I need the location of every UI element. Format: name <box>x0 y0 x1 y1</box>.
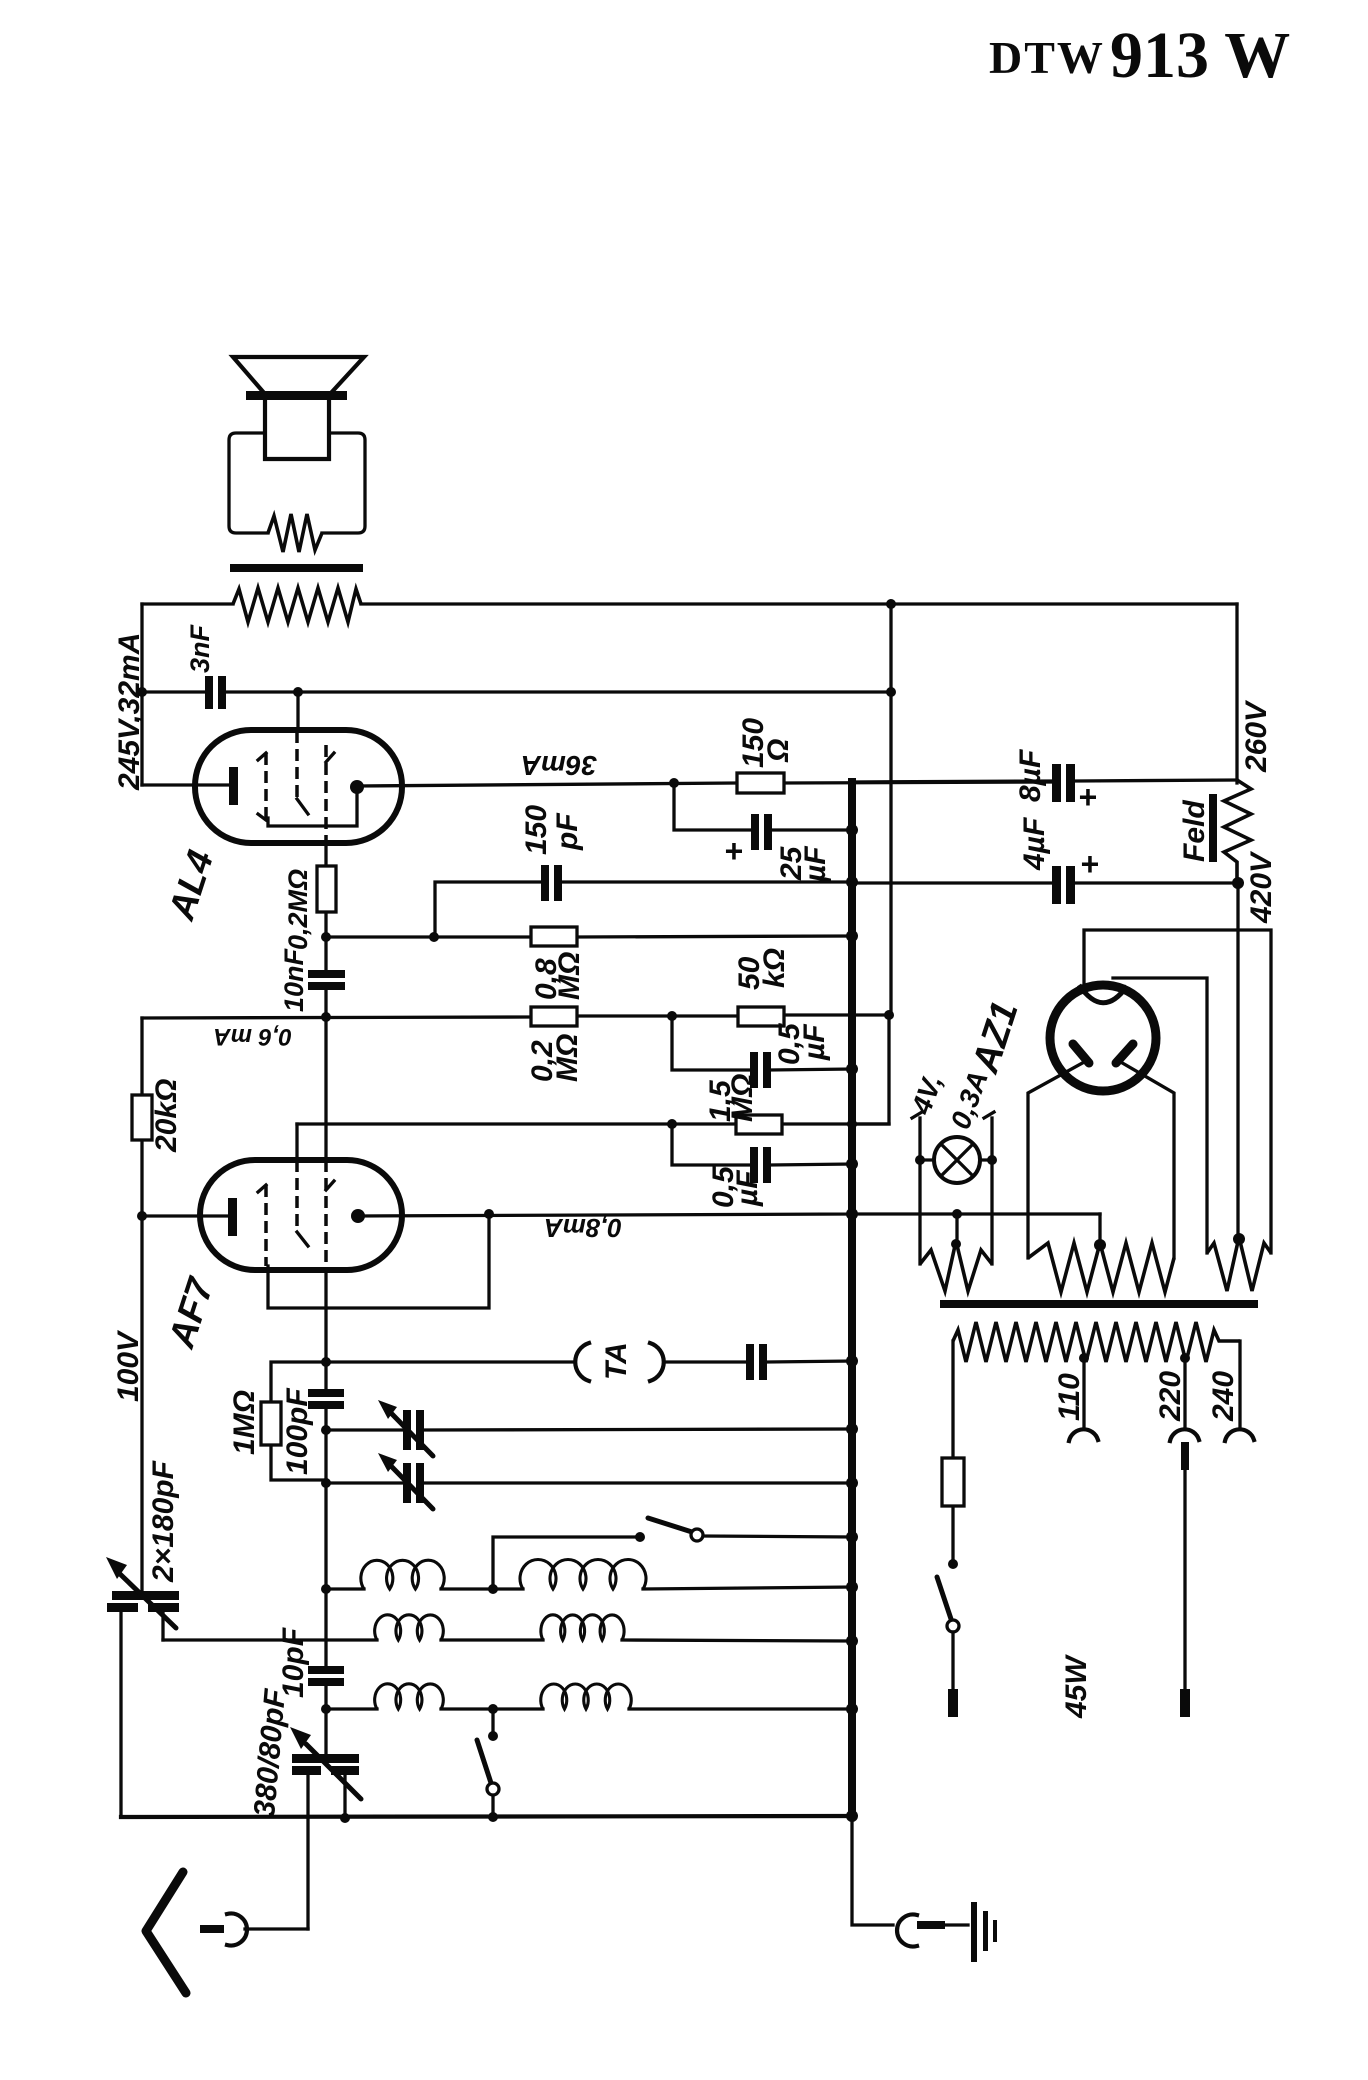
coil L1b <box>520 1559 646 1589</box>
coil row2 <box>163 1635 858 1647</box>
main HT bus <box>848 782 856 1816</box>
node heater winding centre tap <box>951 1239 961 1249</box>
svg-text:DTW: DTW <box>989 32 1105 83</box>
resistor 0,2MΩ lower <box>526 1007 584 1082</box>
resistor 0,2MΩ grid AL4 <box>324 843 327 971</box>
svg-text:Ω: Ω <box>762 739 795 763</box>
transformer core <box>940 1300 1258 1308</box>
node bus junction (852,1214) <box>846 1208 858 1220</box>
dial lamp <box>905 1067 997 1264</box>
transformer primary <box>953 1322 1240 1362</box>
node junction (434,937) <box>429 932 439 942</box>
resistor 0,8MΩ <box>530 927 858 1000</box>
wire grid line y=692 <box>142 690 891 693</box>
svg-text:µF: µF <box>798 1024 831 1061</box>
output transformer core <box>230 564 363 572</box>
svg-text:+: + <box>724 833 743 869</box>
bottom line <box>121 1816 852 1817</box>
svg-text:0,6 mA: 0,6 mA <box>213 1023 292 1050</box>
capacitor 8µF <box>852 749 1237 815</box>
node junction (493,1817) <box>488 1812 498 1822</box>
field coil Feld <box>1178 780 1251 883</box>
svg-text:220: 220 <box>1154 1371 1187 1422</box>
node junction (326,1483) <box>321 1478 331 1488</box>
node junction (326,1362) <box>321 1357 331 1367</box>
tap 220 <box>1183 1358 1186 1428</box>
coil L1a <box>361 1560 444 1589</box>
heater winding right <box>1207 1237 1271 1291</box>
svg-text:10pF: 10pF <box>277 1627 310 1698</box>
ground <box>852 1816 997 1962</box>
svg-text:420V: 420V <box>1245 850 1278 924</box>
tap 240 <box>1238 1341 1241 1428</box>
tube AL4 <box>142 692 402 925</box>
svg-text:TA: TA <box>600 1342 633 1380</box>
node junction (326,1017) <box>321 1012 331 1022</box>
node primary tap 110 (1084,1358) <box>1079 1353 1089 1363</box>
heater winding left <box>920 1241 992 1291</box>
HV winding <box>1028 1243 1174 1292</box>
svg-text:Feld: Feld <box>1178 800 1211 862</box>
node primary tap 220 (1185,1358) <box>1180 1353 1190 1363</box>
tap 110 <box>1082 1358 1085 1428</box>
svg-text:0,8mA: 0,8mA <box>544 1213 622 1243</box>
node junction (891,692) <box>886 687 896 697</box>
svg-text:260V: 260V <box>1240 699 1273 773</box>
TA jack line <box>326 1342 858 1381</box>
node junction (326,1430) <box>321 1425 331 1435</box>
capacitor 0,5µF lower <box>672 1119 858 1208</box>
svg-text:100pF: 100pF <box>281 1388 314 1475</box>
capacitor 100pF <box>281 1388 344 1475</box>
loudspeaker <box>229 357 365 533</box>
svg-text:10nF: 10nF <box>279 947 309 1012</box>
wire y=937 <box>326 936 852 937</box>
svg-text:µF: µF <box>731 1170 764 1207</box>
node junction (345,1818) <box>340 1813 350 1823</box>
svg-text:36mA: 36mA <box>521 750 597 781</box>
wire right HT vertical x=1237 <box>1235 604 1238 783</box>
resistor 1,5MΩ <box>297 1074 889 1134</box>
trimmer capacitor row2 <box>326 1453 858 1509</box>
svg-text:20kΩ: 20kΩ <box>150 1079 183 1153</box>
node junction (957,1214) <box>952 1209 962 1219</box>
svg-text:150: 150 <box>520 805 553 855</box>
wire HV centre tap lead <box>1098 1214 1101 1245</box>
svg-text:pF: pF <box>551 813 584 851</box>
AL4 anode line 36mA <box>357 782 1054 786</box>
resistor 1MΩ <box>228 1362 326 1480</box>
speaker voice-coil resistor <box>268 514 322 552</box>
node HV winding centre tap <box>1094 1239 1106 1251</box>
svg-text:0,2MΩ: 0,2MΩ <box>283 869 313 950</box>
node AZ1 heater winding centre tap <box>1233 1233 1245 1245</box>
svg-text:8µF: 8µF <box>1014 749 1047 802</box>
svg-text:+: + <box>1080 846 1099 882</box>
output transformer primary winding <box>233 588 361 622</box>
antenna <box>146 1872 308 1993</box>
coil L3a <box>375 1684 444 1709</box>
coil row3 <box>321 1703 858 1715</box>
node junction (298,692) AL4 g2 feed <box>293 687 303 697</box>
fuse + mains switch <box>937 1341 964 1717</box>
svg-text:45W: 45W <box>1060 1654 1093 1719</box>
svg-text:913 W: 913 W <box>1110 19 1290 92</box>
coil L3b <box>541 1684 632 1709</box>
resistor 50kΩ <box>733 948 791 1026</box>
coil row1 <box>326 1581 858 1594</box>
capacitor 25µF <box>674 783 858 883</box>
svg-text:245V,32mA: 245V,32mA <box>113 633 146 791</box>
wire AF7 grid down <box>324 1270 327 1390</box>
coil L2b <box>541 1615 624 1640</box>
node junction (672,1016) <box>667 1011 677 1021</box>
coil L2a <box>375 1615 444 1640</box>
svg-text:MΩ: MΩ <box>551 1034 584 1082</box>
band switch lower <box>477 1709 499 1817</box>
svg-text:2×180pF: 2×180pF <box>147 1460 180 1583</box>
capacitor 10nF <box>279 947 345 1012</box>
svg-text:1MΩ: 1MΩ <box>228 1390 261 1455</box>
capacitor 4µF <box>852 817 1244 904</box>
node junction (326,1589) <box>321 1584 331 1594</box>
svg-text:240: 240 <box>1207 1371 1240 1422</box>
node junction (489,1214) <box>484 1209 494 1219</box>
variable capacitor 2x180pF <box>106 1216 180 1817</box>
wire 420V + filament line <box>1084 883 1271 1253</box>
wire centre tap lead <box>955 1214 958 1244</box>
svg-text:3nF: 3nF <box>185 623 215 673</box>
capacitor 10pF <box>277 1627 344 1698</box>
svg-text:4µF: 4µF <box>1018 817 1051 871</box>
svg-text:MΩ: MΩ <box>553 952 586 1000</box>
svg-text:MΩ: MΩ <box>726 1074 759 1122</box>
node <box>321 932 331 942</box>
capacitor 0,5µF upper <box>672 1016 858 1088</box>
AF7 anode line 0,8mA <box>358 1214 1100 1216</box>
wire vertical x=890 <box>852 604 891 1124</box>
trimmer capacitor 380/80pF <box>248 1687 361 1929</box>
node junction (674,783) <box>669 778 679 788</box>
svg-text:µF: µF <box>799 846 832 883</box>
wire top HT line <box>142 602 1237 605</box>
capacitor 150pF <box>435 805 858 937</box>
mains lead 220 <box>1181 1442 1189 1470</box>
node bus junction (852,1124) <box>847 1119 857 1129</box>
svg-text:110: 110 <box>1053 1373 1086 1421</box>
AF7 screen loop <box>268 1214 489 1308</box>
node junction (889,1015) <box>884 1010 894 1020</box>
svg-text:+: + <box>1078 779 1097 815</box>
wire AF7 grid column x=326 <box>324 1409 327 1709</box>
band switch upper <box>493 1518 858 1589</box>
node junction (142,692) <box>137 687 147 697</box>
tube AF7 <box>137 1017 402 1353</box>
node bus junction (852,1816) <box>846 1810 858 1822</box>
resistor 20kΩ <box>132 1018 183 1216</box>
capacitor 3nF <box>185 623 226 709</box>
trimmer capacitor row1 <box>326 1400 858 1456</box>
resistor 150Ω <box>737 718 795 793</box>
wire 0,6mA line <box>142 1015 889 1018</box>
svg-text:100V: 100V <box>112 1329 145 1402</box>
svg-text:kΩ: kΩ <box>758 948 791 988</box>
node junction (891,604) <box>886 599 896 609</box>
tube AZ1 <box>964 978 1207 1258</box>
wire left vertical <box>140 604 143 785</box>
